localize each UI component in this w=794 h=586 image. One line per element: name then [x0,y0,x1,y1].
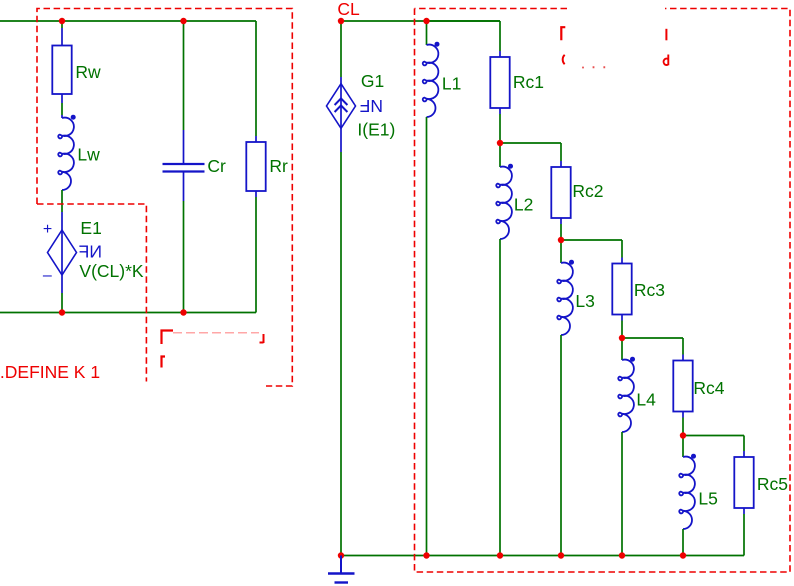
red remnant glyph 3 [563,55,565,64]
polarity dot of Lw [71,115,76,120]
polarity dot of L3 [569,260,574,265]
resistor Rc5 [734,457,753,508]
node B top junction [180,18,186,24]
wire down to Rc2 [560,143,562,161]
svg-text:Lw: Lw [77,145,100,165]
bottom bus junction x=426.5 [423,552,429,558]
wire Rc2 to node 3 [560,224,562,240]
node bottom junction at E1 [59,309,65,315]
red text remnant right tick [260,334,264,343]
svg-text:L1: L1 [442,74,461,94]
resistor Rc1 [490,57,509,108]
wire Rc1 to node 2 [499,114,501,143]
lead G1 top [340,77,342,84]
node A top junction [59,18,65,24]
svg-text:L5: L5 [698,489,717,509]
wire bottom bus right circuit [341,555,744,557]
inductor L3 [557,263,573,335]
wire node 2 to Rc2 branch [500,142,561,144]
bottom bus junction x=683 [680,552,686,558]
node 1 junction [423,18,429,24]
capacitor Cr plate top [163,163,205,165]
svg-text:NF: NF [79,242,102,262]
wire node 1 to Rc1 branch [427,20,501,22]
wire node 1 to L1 [426,21,428,45]
wire L2 to bottom bus [499,239,501,556]
lead Rc1 bottom [499,108,501,114]
bottom bus junction x=500 [497,552,503,558]
wire Rr to bottom bus [255,197,257,313]
lead Cr top [183,130,185,163]
wire CL node to G1 [340,21,342,77]
node 2 junction [497,140,503,146]
wire Rw to Lw [61,103,63,115]
wire bottom bus left circuit [0,312,256,314]
lead Rc1 top [499,51,501,57]
svg-text:L2: L2 [514,195,533,215]
wire node A to Rw [61,21,63,28]
svg-text:I(E1): I(E1) [357,120,395,140]
node CL junction [338,18,344,24]
lead Rc3 top [621,258,623,264]
wire top bus left circuit [0,20,256,22]
polarity dot of L2 [508,164,513,169]
svg-text:L3: L3 [575,291,594,311]
svg-text:Rc1: Rc1 [513,72,544,92]
svg-text:.DEFINE K 1: .DEFINE K 1 [0,362,100,382]
wire L5 to bottom bus [682,529,684,556]
source G1 [327,84,356,129]
wire through G1 [340,84,342,128]
red remnant small marks [583,66,604,68]
wire Rc4 to node 5 [682,418,684,436]
polarity dot of L4 [630,357,635,362]
red remnant glyph 2 [665,29,667,41]
lead Rc4 bottom [682,412,684,418]
svg-text:Rw: Rw [75,62,101,82]
bottom bus junction x=561 [558,552,564,558]
wire down to Rc4 [682,338,684,355]
wire node 4 to Rc4 branch [622,337,683,339]
lead Rc5 bottom [743,508,745,514]
lead Cr bottom [183,173,185,202]
annotation dashed box left inner [37,204,146,382]
resistor Rw [52,46,71,95]
lead Rr top [255,136,257,142]
ground stub [340,556,342,574]
source E1 [48,230,77,275]
inductor L2 [496,167,512,239]
arrow chevrons of G1 [335,98,348,112]
wire down to Rc3 [621,240,623,258]
capacitor Cr plate bottom [163,170,205,172]
lead Rw bottom [61,94,63,103]
svg-text:Rc5: Rc5 [757,474,788,494]
node bottom junction at Cr [180,309,186,315]
annotation dashed box left outer [37,9,292,387]
bottom bus junction x=341 [338,552,344,558]
lead Rc5 top [743,451,745,457]
node 5 junction [680,432,686,438]
red remnant glyph 1 [561,27,565,40]
wire Cr to bottom bus [183,201,185,313]
node 4 junction [619,335,625,341]
annotation dashed box right [415,9,791,573]
svg-text:Rr: Rr [269,156,288,176]
lead Lw top [61,115,63,118]
svg-text:+: + [43,221,52,238]
svg-text:–: – [43,267,52,284]
red remnant glyph 4 [664,55,669,66]
wire node 4 to L4 [621,338,623,360]
lead Rc3 bottom [621,315,623,321]
svg-text:Cr: Cr [207,156,226,176]
wire L4 to bottom bus [621,432,623,556]
wire Rc5 to bottom bus [743,514,745,556]
wire node B to Cr [183,21,185,130]
wire node 5 to Rc5 branch [683,435,744,437]
lead E1 bottom [61,275,63,293]
svg-text:NF: NF [360,96,383,116]
wire down to Rc1 [499,21,501,51]
ground bar 2 [335,581,349,583]
wire node 2 to L2 [499,143,501,167]
red text remnant thin line [173,332,259,334]
wire node 3 to L3 [560,240,562,263]
lead G1 bottom [340,128,342,152]
svg-text:L4: L4 [636,390,656,410]
ground bar 1 [328,572,355,574]
wire node 5 to L5 [682,436,684,458]
wire E1 to bottom bus [61,293,63,313]
wire top bus right circuit [341,20,500,22]
wire L3 to bottom bus [560,335,562,556]
wire Rc3 to node 4 [621,321,623,339]
lead Rr bottom [255,191,257,197]
svg-text:G1: G1 [361,71,384,91]
svg-text:Rc2: Rc2 [572,181,603,201]
wire through E1 [61,230,63,275]
inductor L4 [618,360,634,432]
lead Rc2 top [560,161,562,167]
lead Rc2 bottom [560,218,562,224]
wire G1 to bottom bus [340,152,342,556]
inductor L5 [679,457,695,529]
wire Lw to E1 [61,190,63,212]
wire top bus corner to Rr [255,21,257,136]
svg-text:Rc4: Rc4 [693,378,724,398]
lead Rc4 top [682,355,684,361]
svg-text:CL: CL [337,0,360,19]
inductor Lw [58,118,74,190]
lead E1 top [61,212,63,230]
node 3 junction [558,237,564,243]
resistor Rr [246,142,265,191]
polarity dot of L1 [435,42,440,47]
resistor Rc3 [612,264,631,315]
svg-text:Rc3: Rc3 [634,280,665,300]
resistor Rc4 [673,361,692,412]
wire L1 to bottom bus [426,117,428,556]
red text remnant r mark [162,357,166,368]
polarity dot of L5 [691,454,696,459]
inductor L1 [423,45,439,117]
bottom bus junction x=622 [619,552,625,558]
svg-text:E1: E1 [80,218,101,238]
wire down to Rc5 [743,436,745,452]
resistor Rc2 [551,167,570,218]
svg-text:V(CL)*K: V(CL)*K [79,261,144,281]
lead Rw top [61,28,63,46]
red text remnant corner mark [162,331,174,345]
wire node 3 to Rc3 branch [561,239,622,241]
